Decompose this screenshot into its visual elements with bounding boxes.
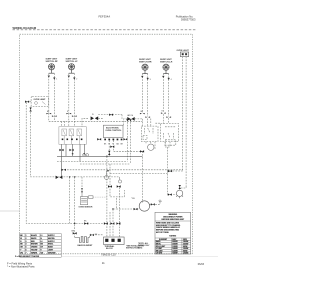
- svg-text:6: 6: [26, 250, 27, 252]
- svg-text:YELOW: YELOW: [31, 250, 38, 252]
- svg-text:4: 4: [26, 243, 27, 246]
- oven selector switch block: [59, 127, 86, 145]
- svg-text:RATING: RATING: [169, 235, 176, 238]
- EOC terminal marks: [104, 139, 122, 141]
- convection motor circle: [139, 201, 149, 211]
- surface unit switch LF wire connectors: [68, 76, 76, 80]
- EOC terminal labels: [104, 142, 124, 145]
- wire from lamp box left down to bottom bus: [26, 102, 106, 224]
- terminal block body: [104, 237, 125, 245]
- connector pair on RR wires at bus: [140, 113, 150, 118]
- selector block terminal marks: [62, 139, 83, 141]
- junction on bottom bus: [74, 223, 76, 225]
- svg-text:4: 4: [171, 79, 172, 81]
- svg-text:* = Non-Illustrated Parts: * = Non-Illustrated Parts: [7, 264, 35, 268]
- svg-text:L1: L1: [41, 235, 43, 237]
- svg-text:GREEN: GREEN: [31, 252, 38, 254]
- door lock switch box: [161, 124, 179, 146]
- svg-text:11: 11: [102, 261, 105, 265]
- note text left of rating box: [138, 242, 150, 249]
- surface unit switch RF wire connectors: [48, 76, 56, 80]
- connector pair on LF wires at bus: [66, 113, 76, 117]
- wire latch blob to RR wire: [135, 118, 143, 120]
- svg-text:7: 7: [26, 252, 27, 254]
- svg-text:5: 5: [26, 247, 27, 249]
- EOC second drop wire: [108, 140, 110, 156]
- wires below thermostat boxes: [146, 142, 170, 171]
- door latch connector blob: [127, 117, 134, 121]
- svg-text:1: 1: [56, 79, 57, 81]
- wires from LR pair down to lock box: [162, 114, 164, 124]
- surface unit switch LF wire pair: [69, 73, 75, 115]
- svg-text:OVEN LIGHT: OVEN LIGHT: [177, 50, 190, 52]
- bake element: [75, 237, 90, 243]
- connectors below selector block: [59, 149, 73, 151]
- svg-text:1800W: 1800W: [172, 253, 178, 255]
- bake element right connector: [90, 234, 98, 236]
- oven lamp holder block: [180, 52, 188, 57]
- bake element drop wire: [74, 177, 76, 238]
- oven thermostat box: [141, 126, 158, 142]
- wire left riser to terminal block: [106, 156, 108, 237]
- svg-text:SURF UNIT: SURF UNIT: [160, 59, 172, 61]
- oven lamp assembly box: [31, 97, 48, 107]
- junction dot d: [107, 170, 109, 172]
- svg-text:SURF UNIT: SURF UNIT: [46, 59, 58, 61]
- svg-text:SUPPLY: SUPPLY: [48, 241, 55, 243]
- surface unit switch RF: [48, 64, 54, 74]
- oven sensor body: [80, 191, 87, 205]
- door switch circles on bus: [83, 154, 89, 157]
- surface unit switch RF wire pair: [49, 73, 55, 115]
- connector on link wire: [109, 114, 113, 116]
- svg-text:LR UNIT: LR UNIT: [156, 253, 164, 255]
- svg-text:SWITCH-LR: SWITCH-LR: [160, 62, 173, 64]
- motor left wire: [116, 208, 139, 210]
- connector on y171 wire: [168, 170, 172, 172]
- connector below lamp box: [29, 108, 31, 112]
- junction dot c: [106, 156, 108, 158]
- oven sensor plug wire: [93, 196, 107, 198]
- svg-text:SURF UNIT: SURF UNIT: [139, 59, 151, 61]
- extra terminal riser: [109, 212, 111, 237]
- electronic oven control box: [103, 125, 123, 137]
- wire from LR switch down right side: [167, 171, 169, 195]
- svg-text:SWITCH-LF: SWITCH-LF: [66, 61, 79, 63]
- junction dot b: [84, 153, 86, 155]
- wire from oven light to left: [168, 194, 177, 196]
- svg-text:3: 3: [26, 241, 27, 243]
- svg-text:LATCH: LATCH: [127, 114, 134, 117]
- EOC riser top connectors: [126, 119, 132, 121]
- svg-text:BLACK: BLACK: [31, 234, 38, 237]
- svg-text:BAKE ELEMENT: BAKE ELEMENT: [78, 244, 94, 247]
- wire left mid riser to bottom bus: [69, 177, 71, 224]
- svg-text:SWITCH-RF: SWITCH-RF: [46, 61, 59, 63]
- diagram frame: [20, 34, 193, 254]
- selector block lower wires: [61, 144, 84, 177]
- wire blob right to RR line: [98, 117, 103, 119]
- svg-text:1: 1: [26, 235, 27, 237]
- connector on y170 left: [62, 169, 67, 171]
- motor right connectors: [151, 203, 155, 205]
- connector on motor left wire: [134, 208, 138, 210]
- svg-text:SURF UNIT: SURF UNIT: [66, 59, 78, 61]
- connector pair on LR wires at bus: [161, 112, 171, 117]
- terminal riser connectors bottom: [104, 222, 121, 224]
- connector above oven light: [179, 185, 181, 189]
- warning and rating box: [155, 212, 191, 254]
- svg-text:WHITE: WHITE: [31, 238, 37, 240]
- tiny wire id labels under switches: [56, 79, 171, 81]
- oven sensor connector: [81, 188, 83, 192]
- horizontal wire y164: [80, 163, 130, 165]
- relay coil symbol: [105, 171, 109, 180]
- horizontal wire y173: [110, 172, 168, 174]
- svg-text:SWITCH-RR: SWITCH-RR: [139, 62, 152, 64]
- connector on EOC second drop: [108, 151, 110, 155]
- surface unit switch RR wire connectors: [141, 76, 149, 80]
- rating table lines: [155, 238, 191, 254]
- bus wire 3 into selector block: [68, 113, 70, 127]
- horizontal link wire y114.6: [98, 114, 122, 116]
- junction dot a: [72, 153, 74, 155]
- svg-text:GROUND: GROUND: [48, 252, 56, 254]
- wire color code table: [20, 234, 62, 258]
- surface unit switch RR wire pair: [142, 74, 147, 117]
- wires from RR pair down to thermostat box: [141, 119, 143, 126]
- probe circle symbol: [118, 177, 121, 183]
- warning text: [162, 213, 185, 221]
- svg-text:OVEN SENSOR: OVEN SENSOR: [79, 207, 94, 209]
- surface unit switch LR label: [160, 59, 173, 64]
- motor right wire: [150, 200, 160, 205]
- wire bus y171 to lamp riser: [167, 170, 183, 172]
- surface unit switch LR wire connectors: [162, 76, 170, 80]
- svg-text:BROIL: BROIL: [48, 244, 53, 246]
- svg-text:1350W: 1350W: [183, 253, 189, 255]
- bottom bus connector BK: [84, 221, 88, 225]
- svg-text:2: 2: [26, 238, 27, 240]
- faint scan artifact line bottom: [62, 256, 218, 258]
- wire from corner down to motor wire: [115, 198, 117, 209]
- surface unit switch LF label: [66, 59, 79, 64]
- scan artifact line left edge: [0, 210, 20, 212]
- bend wire to motor label: [110, 186, 124, 197]
- surface unit switch LF: [68, 64, 74, 74]
- svg-text:TB6033-C10: TB6033-C10: [101, 252, 116, 256]
- wire probe down to terminal riser: [118, 187, 120, 237]
- horizontal wire y156: [57, 155, 142, 157]
- connector pair on RF wires at bus: [46, 113, 56, 117]
- svg-text:06/03: 06/03: [198, 263, 205, 266]
- bus wire into selector block: [48, 113, 50, 121]
- surface unit switch RR label: [139, 59, 152, 64]
- left arrow connector mid: [108, 185, 112, 187]
- wire color code table text: [20, 234, 56, 254]
- svg-text:BEFORE SERVICING UNIT: BEFORE SERVICING UNIT: [162, 219, 185, 221]
- svg-text:ORANG: ORANG: [31, 246, 38, 249]
- svg-text:BROWN: BROWN: [31, 244, 38, 246]
- rating table text: [156, 238, 189, 255]
- oven light bulb: [176, 190, 183, 198]
- terminal block terminals: [105, 239, 121, 242]
- page rule: [13, 29, 198, 31]
- EOC top-right riser wires: [127, 122, 130, 164]
- horizontal wire y177: [58, 176, 120, 178]
- svg-text:*1B: *1B: [131, 198, 135, 200]
- wire mid left down to terminal riser: [109, 164, 111, 186]
- connector at lamp box left: [25, 101, 29, 103]
- surface unit switch RF label: [46, 59, 59, 64]
- svg-text:BLOCK: BLOCK: [106, 248, 113, 250]
- connector on motor riser horizontal: [140, 150, 144, 152]
- terminal riser mid wire: [112, 209, 114, 237]
- svg-text:WIRING DIAGRAM: WIRING DIAGRAM: [13, 26, 37, 30]
- EOC right connector: [123, 138, 127, 140]
- bake element left connector: [72, 231, 77, 235]
- warning separator: [155, 220, 191, 222]
- motor riser wire: [141, 151, 143, 202]
- horizontal wire y170: [61, 169, 182, 171]
- connector on oven light left wire: [168, 193, 172, 195]
- connector below probe: [117, 185, 121, 187]
- svg-text:OVEN CONTROL: OVEN CONTROL: [105, 130, 122, 132]
- connector on y177 left: [56, 176, 63, 179]
- bus wire blob to selector: [82, 118, 88, 126]
- long bus wire y121: [49, 120, 143, 122]
- svg-text:SUPPLY: SUPPLY: [48, 235, 55, 237]
- EOC left connector: [97, 138, 101, 140]
- svg-text:3: 3: [150, 79, 151, 81]
- wire between thermostat and lock box: [155, 122, 160, 124]
- svg-text:OVEN LAMP: OVEN LAMP: [34, 98, 47, 101]
- bus wire 2 into selector block: [53, 116, 55, 122]
- svg-text:5995377503: 5995377503: [181, 18, 196, 22]
- surface unit switch LR: [163, 64, 169, 74]
- surface unit switch LR wire pair: [163, 74, 168, 117]
- oven sensor plug: [89, 196, 94, 199]
- svg-text:*4B: *4B: [158, 201, 162, 203]
- lock motor circle: [148, 144, 154, 150]
- horizontal wire y161: [57, 161, 127, 163]
- wire latch blob left down to EOC: [124, 119, 128, 125]
- svg-text:L2: L2: [41, 241, 43, 243]
- surface unit switch RR: [142, 64, 148, 74]
- oven sensor wire up: [81, 177, 83, 190]
- tiny wire labels at bus: [47, 110, 164, 116]
- bake element right wire to terminal block: [90, 235, 104, 238]
- svg-text:FEF354A: FEF354A: [99, 14, 111, 18]
- svg-text:F = GND-BK/WHT TRACER: F = GND-BK/WHT TRACER: [15, 255, 40, 258]
- svg-text:2: 2: [76, 79, 77, 81]
- wire from bus right to motor area: [113, 208, 116, 210]
- EOC lower wire to motor riser: [113, 140, 142, 151]
- connector on EOC lower wire: [110, 146, 114, 148]
- svg-text:ANY OF THEM.: ANY OF THEM.: [156, 231, 169, 234]
- wire from lamp box bottom to bus: [31, 107, 59, 177]
- oven lamp holder wires: [180, 57, 187, 190]
- bus connector blob center: [91, 116, 99, 120]
- bus wire 4 into selector block: [73, 116, 75, 127]
- svg-text:NEUTRL: NEUTRL: [48, 238, 55, 240]
